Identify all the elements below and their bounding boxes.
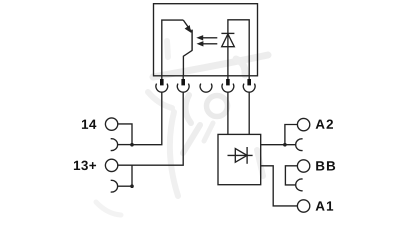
label A2 [316, 119, 333, 128]
rectifier box U2 [218, 134, 261, 184]
terminal circle 14 [105, 118, 117, 130]
terminal pin 4 [226, 76, 230, 86]
wire 14 circle to junction [117, 124, 132, 145]
diode D2 line [228, 154, 253, 156]
LED D1 cathode bar [221, 32, 234, 34]
phototransistor Q1 arrow [185, 25, 192, 33]
optocoupler U1 outline [154, 4, 258, 76]
wire rectifier to A2 net [261, 144, 296, 146]
background watermark (decorative) [96, 41, 268, 215]
wire rectifier to A1 [261, 166, 297, 206]
wire T4 to rectifier [227, 92, 229, 134]
terminal circle A2 [297, 118, 309, 130]
terminal circle BB [297, 160, 309, 172]
wire T1 to 14 net [132, 92, 162, 145]
terminal circle A1 [297, 200, 309, 212]
label BB [316, 161, 335, 170]
wire LED loop [228, 20, 249, 76]
wire T2 to 13 net [117, 92, 183, 165]
socket arc 3 (empty) [200, 84, 212, 93]
label 13+ [74, 161, 96, 171]
label A1 [316, 201, 334, 210]
wire T5 to rectifier [248, 92, 250, 134]
junction dot A2 [283, 143, 287, 147]
socket arc 2 [177, 84, 189, 93]
light arrow 1 [196, 35, 217, 40]
wire BB bracket [285, 166, 297, 185]
plug arc A2 [296, 139, 303, 151]
plug arc BB [296, 179, 303, 191]
socket arc 4 [222, 84, 234, 93]
socket arc 1 [156, 84, 168, 93]
socket arc 5 [243, 84, 255, 93]
junction dot 14 [130, 143, 134, 147]
terminal circle 13+ [105, 159, 117, 171]
phototransistor Q1 emitter [183, 50, 192, 75]
terminal pin 2 [181, 76, 185, 86]
diode D2 triangle [235, 149, 247, 163]
phototransistor Q1 base bar [191, 30, 193, 51]
phototransistor Q1 collector diagonal [183, 20, 192, 32]
wire A2 branch [285, 125, 297, 145]
terminal pin 1 [160, 76, 164, 86]
diode D2 cathode bar [246, 147, 248, 164]
plug arc 13 [111, 180, 132, 192]
junction dot 13 [130, 184, 134, 188]
light arrow 2 [197, 41, 218, 46]
plug arc 14 [111, 139, 132, 151]
LED D1 triangle [222, 34, 235, 47]
terminal pin 5 [247, 76, 251, 86]
wire collector riser [162, 20, 184, 76]
wire 13 arc to 13 net [131, 165, 133, 186]
label 14 [82, 120, 96, 129]
